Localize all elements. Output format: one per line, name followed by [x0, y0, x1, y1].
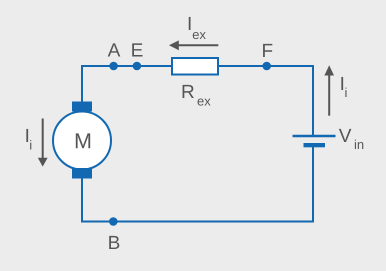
- node F label: [263, 44, 272, 57]
- current label Iex: [189, 17, 191, 30]
- wire: top-left horizontal segment A-E to resistor: [82, 65, 172, 67]
- motor M: letter label: [76, 133, 90, 148]
- motor M: bottom brush block: [72, 168, 92, 179]
- wire: left vertical from top wire to motor: [81, 65, 83, 102]
- node F dot: [262, 62, 271, 71]
- current label Ii left: [26, 129, 28, 142]
- node E label: [132, 43, 142, 56]
- wire: top-right horizontal segment resistor to F to corner: [218, 65, 314, 67]
- current arrow Ii right (up-pointing, beside battery): [328, 75, 330, 116]
- battery Vin: label: [339, 129, 352, 142]
- node A dot: [109, 62, 118, 71]
- wire: bottom horizontal segment: [81, 221, 314, 223]
- battery Vin: top thin plate: [293, 135, 336, 138]
- resistor Rex: value label: [183, 85, 194, 98]
- current arrow Iex (left-pointing, above resistor): [178, 44, 219, 46]
- node B dot: [109, 217, 118, 226]
- current arrow Ii left (down-pointing, beside motor): [42, 119, 44, 159]
- node B label: [109, 236, 119, 249]
- wire: right vertical from battery to bottom wire: [312, 147, 314, 223]
- resistor Rex: body: [172, 58, 218, 75]
- node A label: [108, 43, 121, 56]
- battery Vin: bottom thick plate: [304, 143, 326, 147]
- motor M: circle body: [53, 112, 111, 170]
- current label Ii right: [341, 77, 343, 90]
- node E dot: [133, 62, 142, 71]
- motor M: top brush block: [72, 102, 92, 112]
- wire: left vertical motor to bottom wire: [81, 179, 83, 223]
- wire: right vertical from top wire to battery: [312, 65, 314, 135]
